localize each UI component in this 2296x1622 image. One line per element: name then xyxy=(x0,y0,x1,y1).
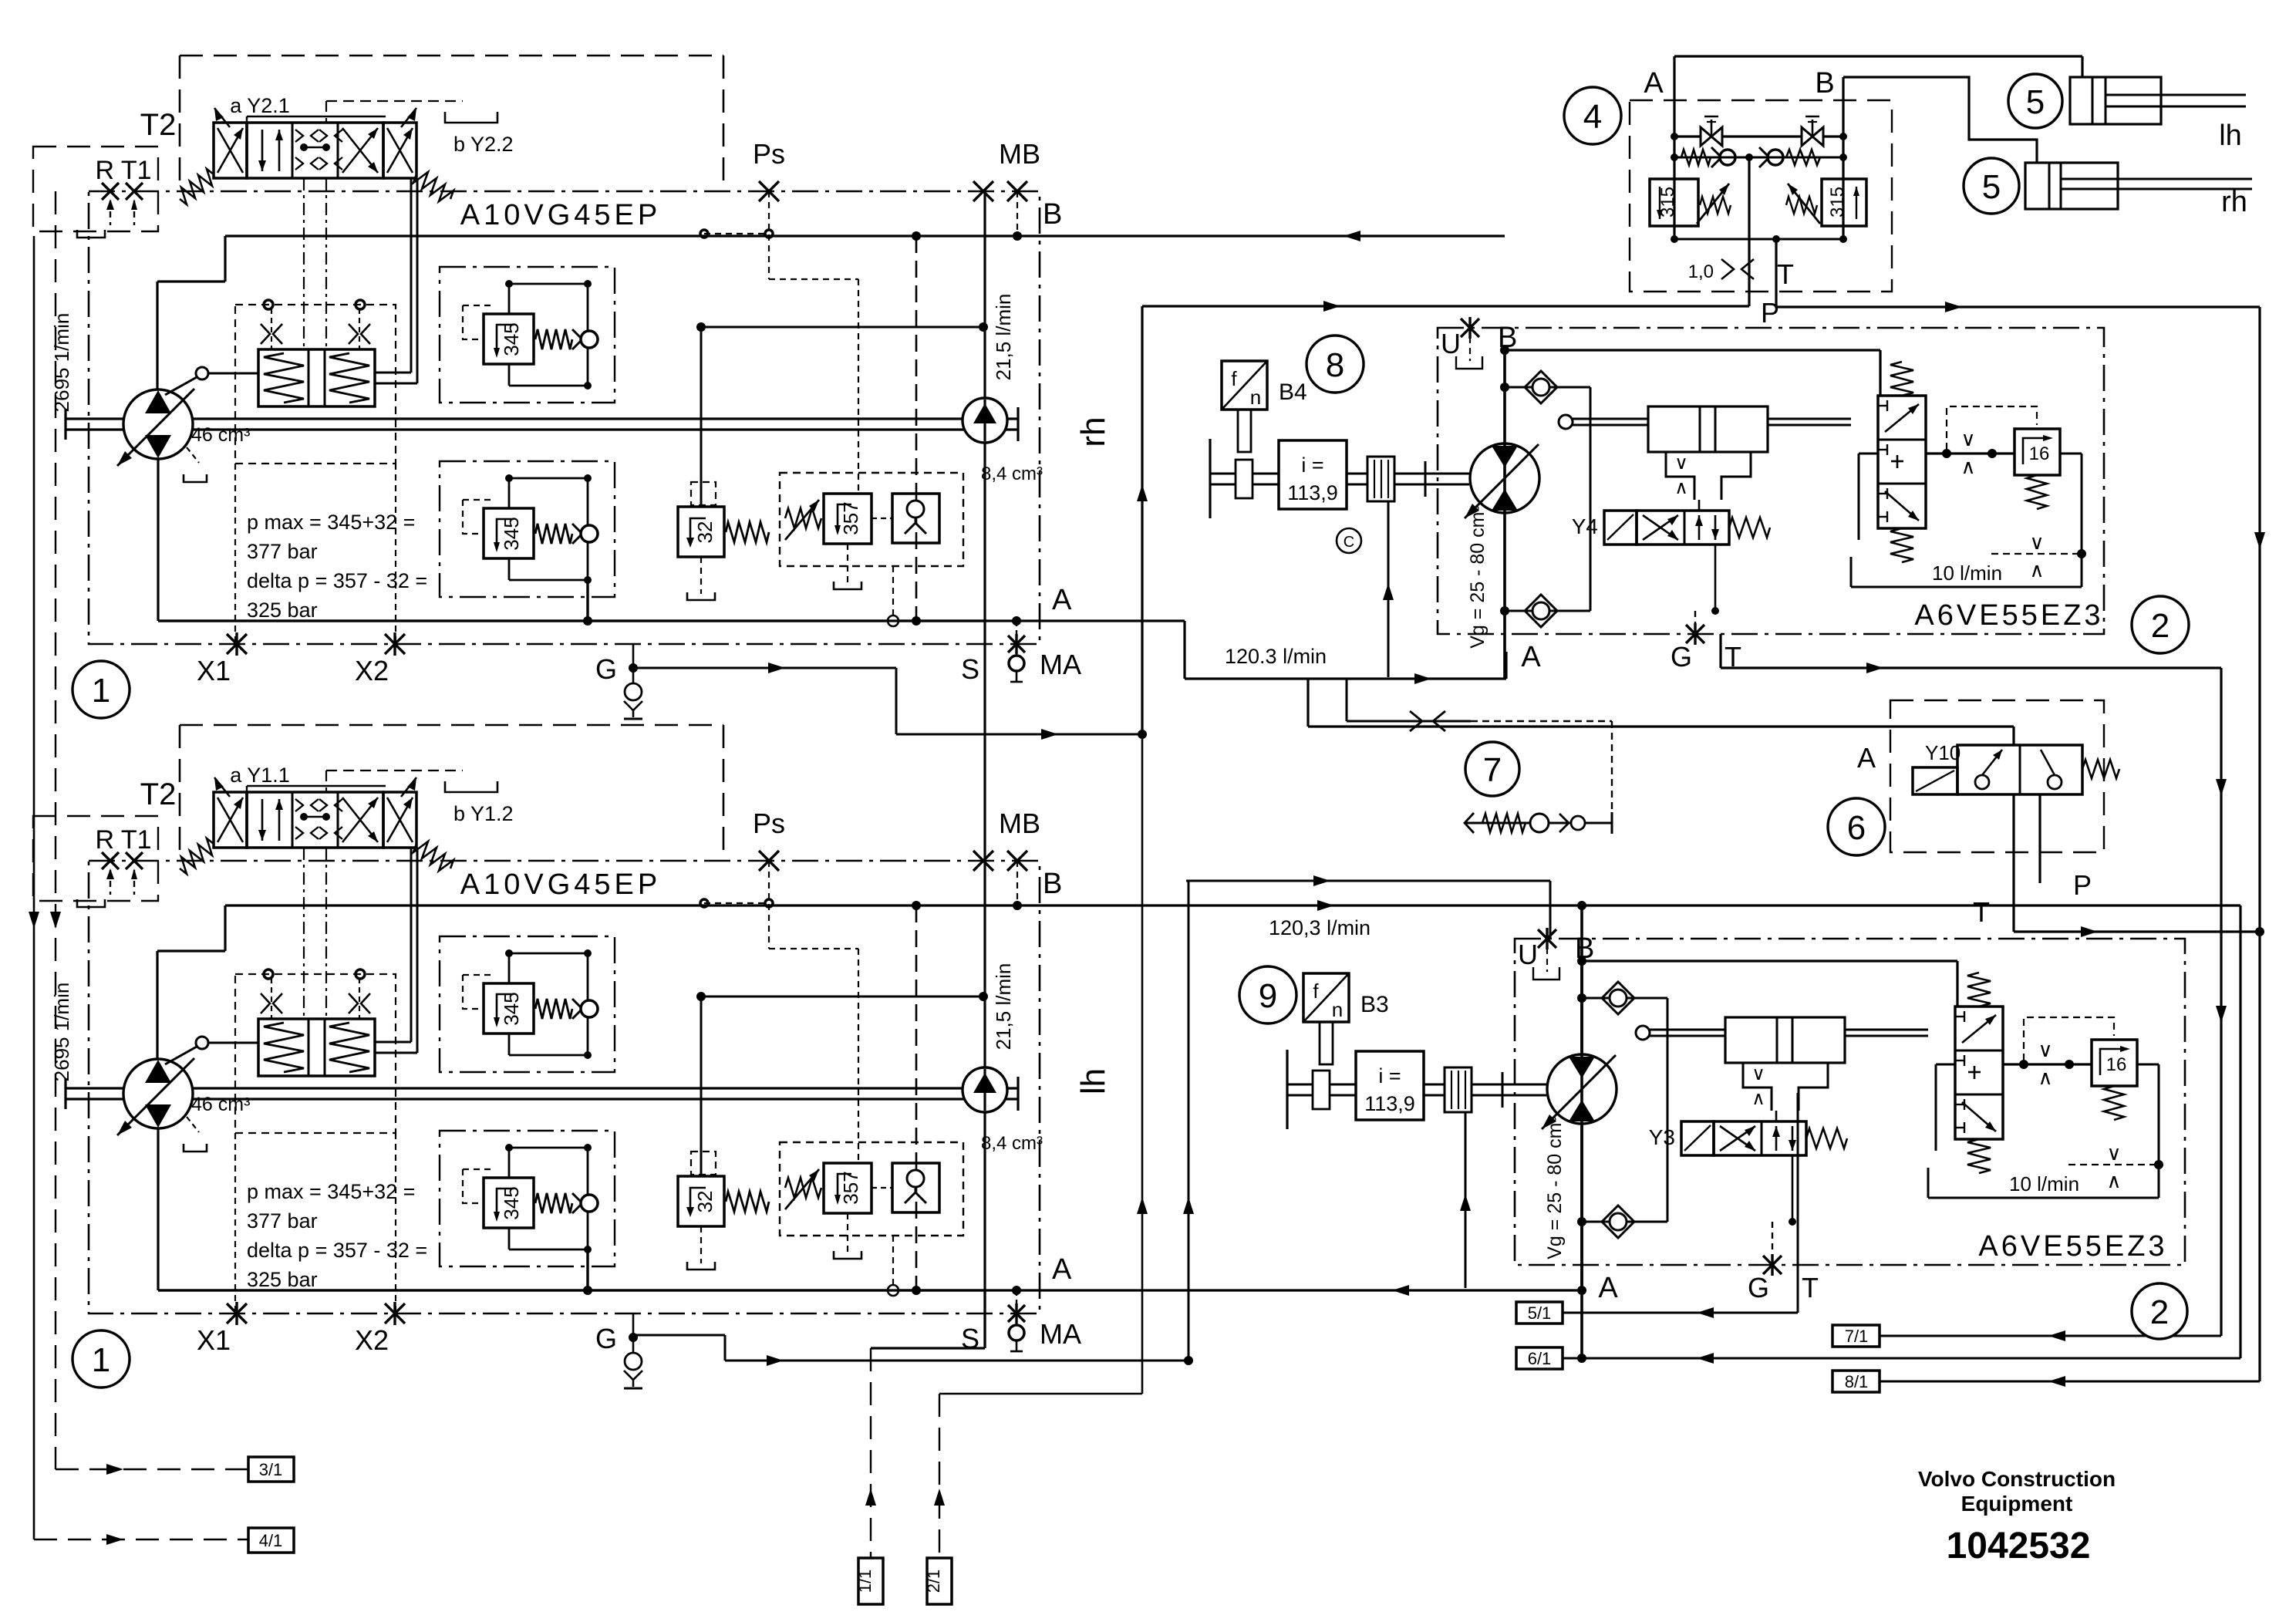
svg-text:T2: T2 xyxy=(140,108,177,142)
svg-text:1: 1 xyxy=(92,672,110,710)
svg-text:∨: ∨ xyxy=(2038,1038,2052,1061)
svg-text:i =: i = xyxy=(1378,1064,1401,1088)
svg-text:345: 345 xyxy=(500,992,523,1025)
svg-text:X1: X1 xyxy=(197,655,231,686)
svg-text:345: 345 xyxy=(500,322,523,356)
solenoid valve Y1.1/Y1.2 4/3 proportional xyxy=(214,792,247,848)
svg-text:A: A xyxy=(1598,1272,1618,1304)
high pressure relief valve 345 bar upper xyxy=(440,936,615,1072)
motor B line through circle xyxy=(1503,443,1506,513)
line G2 pump2 xyxy=(634,1334,725,1337)
shaft coupling xyxy=(1445,1067,1472,1112)
stroking cylinder xyxy=(1649,1029,1928,1031)
svg-text:325 bar: 325 bar xyxy=(247,599,318,622)
svg-text:lh: lh xyxy=(2219,120,2242,152)
svg-text:315: 315 xyxy=(1827,187,1848,218)
svg-text:∧: ∧ xyxy=(2029,558,2044,582)
spring below 16 xyxy=(2027,475,2047,509)
svg-text:∧: ∧ xyxy=(2106,1169,2121,1192)
svg-text:i =: i = xyxy=(1301,454,1323,477)
flushing check upper xyxy=(1505,386,1590,389)
svg-text:Ps: Ps xyxy=(753,808,785,839)
svg-text:10 l/min: 10 l/min xyxy=(2009,1172,2079,1195)
dashed box around control xyxy=(235,974,396,1133)
shaft coupling xyxy=(1367,457,1394,501)
high pressure relief valve 345 bar upper xyxy=(440,267,615,403)
gauge port MA xyxy=(1009,656,1024,671)
svg-text:Y3: Y3 xyxy=(1649,1125,1675,1149)
svg-text:5: 5 xyxy=(2026,83,2045,121)
357 block drain stub to A rail xyxy=(892,566,894,615)
svg-text:46 cm³: 46 cm³ xyxy=(191,424,250,446)
svg-text:∧: ∧ xyxy=(1674,477,1688,498)
svg-text:f: f xyxy=(1231,367,1237,390)
svg-text:1042532: 1042532 xyxy=(1947,1526,2091,1566)
valve output line with V marks xyxy=(1926,452,2014,454)
ref box 2/1 xyxy=(927,1558,952,1604)
pressure cutoff valve 357 bar xyxy=(780,473,963,566)
svg-text:325 bar: 325 bar xyxy=(247,1268,318,1291)
svg-text:lh: lh xyxy=(1074,1068,1112,1094)
svg-text:120.3 l/min: 120.3 l/min xyxy=(1225,645,1327,668)
svg-text:A6VE55EZ3: A6VE55EZ3 xyxy=(1978,1230,2167,1263)
line A2 from pump2 to lh motor xyxy=(158,1289,1582,1291)
enclosure dash-dot box pump xyxy=(89,191,1040,644)
svg-text:X1: X1 xyxy=(197,1324,231,1356)
rh motor A out to right edge xyxy=(1719,634,1721,668)
cylinder pedestal xyxy=(1666,452,1694,500)
svg-text:delta p = 357 - 32 =: delta p = 357 - 32 = xyxy=(247,1239,427,1262)
svg-text:∧: ∧ xyxy=(1961,455,1975,478)
pilot tap line above valve xyxy=(246,116,248,123)
cylinder rh xyxy=(1843,77,2037,163)
spring left of valve xyxy=(180,838,214,874)
svg-text:8: 8 xyxy=(1326,346,1344,384)
svg-text:U: U xyxy=(1441,328,1461,359)
motor B internal line xyxy=(1580,961,1583,1290)
svg-text:4: 4 xyxy=(1583,98,1602,136)
spring left of valve xyxy=(180,169,214,204)
svg-text:f: f xyxy=(1313,980,1319,1003)
svg-text:G: G xyxy=(1748,1272,1769,1303)
orifice on bypass line xyxy=(1347,720,1471,723)
pilot lines from valve to spool xyxy=(234,464,236,644)
svg-text:A: A xyxy=(1521,641,1541,673)
svg-text:G: G xyxy=(1671,641,1692,673)
inner pilot dashed line xyxy=(326,100,463,102)
pilot tap line above valve xyxy=(246,786,248,792)
dashed pilot line around 16 xyxy=(1947,406,2037,450)
svg-text:S: S xyxy=(961,1323,979,1354)
spring right of Y10 valve xyxy=(2082,760,2119,778)
makeup check with spring xyxy=(1465,822,1612,824)
svg-text:∧: ∧ xyxy=(2038,1066,2052,1089)
drive shaft xyxy=(64,409,66,440)
output of 16 to 10 l/min line xyxy=(2060,453,2082,455)
pump frame bottom line / port A rail xyxy=(158,1289,985,1291)
pump casing outline step xyxy=(156,951,158,1059)
dashed pilot line around 16 xyxy=(2024,1017,2114,1061)
svg-text:2695 1/min: 2695 1/min xyxy=(50,313,73,413)
circle 5 lh xyxy=(2008,74,2062,128)
charge line through circle xyxy=(983,1069,986,1111)
orifice left above spool xyxy=(261,324,270,344)
feed line into block6 xyxy=(1308,725,2014,727)
svg-text:16: 16 xyxy=(2029,443,2050,464)
pressure cutoff valve 357 bar xyxy=(780,1142,963,1236)
dashed box around control xyxy=(235,305,396,464)
svg-text:P: P xyxy=(1761,297,1779,329)
charge pressure rail xyxy=(700,327,703,507)
brake shuttle block dashed box xyxy=(1630,100,1892,292)
shutoff valve right xyxy=(1802,127,1812,146)
port X on drain line xyxy=(1008,636,1025,653)
svg-text:G: G xyxy=(595,1323,617,1354)
T return line from block4 xyxy=(1776,305,2260,308)
svg-text:7: 7 xyxy=(1483,751,1502,789)
svg-text:P: P xyxy=(2073,869,2092,901)
svg-text:113,9: 113,9 xyxy=(1364,1092,1415,1115)
svg-text:A: A xyxy=(1644,67,1664,99)
svg-text:p max = 345+32 =: p max = 345+32 = xyxy=(247,511,415,534)
port T1 xyxy=(126,852,143,869)
svg-text:b Y1.2: b Y1.2 xyxy=(453,802,514,825)
solenoid valve Y2.1/Y2.2 4/3 proportional xyxy=(214,123,247,178)
gear lubrication line from coupling xyxy=(1387,501,1390,677)
pressure valve 16 xyxy=(2014,429,2060,475)
item circle 2 rh xyxy=(2132,596,2189,653)
gear lubrication line from coupling xyxy=(1465,1112,1467,1288)
relief 315 right xyxy=(1822,179,1866,226)
svg-text:T: T xyxy=(1777,258,1794,290)
svg-text:46 cm³: 46 cm³ xyxy=(191,1094,250,1115)
svg-text:∨: ∨ xyxy=(1674,453,1688,474)
spring right of valve xyxy=(413,172,453,201)
charge pump 8,4 cm3 xyxy=(963,1067,1007,1112)
svg-text:n: n xyxy=(1250,386,1261,409)
high pressure relief valve 345 bar lower xyxy=(440,1131,615,1266)
svg-text:∧: ∧ xyxy=(1752,1088,1765,1109)
ref box 1/1 xyxy=(858,1558,883,1604)
flushing check upper xyxy=(1582,997,1667,1000)
svg-text:8,4 cm³: 8,4 cm³ xyxy=(981,464,1043,484)
drain bracket right of valve xyxy=(445,781,497,792)
breather at G xyxy=(632,1313,635,1352)
svg-text:345: 345 xyxy=(500,1186,523,1219)
pressure valve 16 xyxy=(2092,1040,2137,1086)
svg-text:21,5 l/min: 21,5 l/min xyxy=(992,294,1015,381)
motor B line through circle xyxy=(1580,1054,1583,1124)
inner pilot dashed line xyxy=(326,770,463,771)
svg-text:3/1: 3/1 xyxy=(259,1460,283,1479)
svg-text:A: A xyxy=(1857,742,1876,774)
sensor f/n B4 xyxy=(1222,361,1267,410)
svg-text:B: B xyxy=(1043,198,1062,231)
svg-text:A: A xyxy=(1052,1253,1072,1286)
orifice left above spool xyxy=(261,993,270,1013)
suction line S2 xyxy=(871,1347,985,1349)
svg-text:345: 345 xyxy=(500,517,523,550)
svg-text:Y10: Y10 xyxy=(1925,741,1961,764)
port R T1 dashed box xyxy=(33,816,158,901)
drive shaft xyxy=(64,1078,66,1109)
svg-text:MB: MB xyxy=(999,138,1040,170)
svg-text:R T1: R T1 xyxy=(95,825,151,855)
svg-text:A10VG45EP: A10VG45EP xyxy=(460,868,661,901)
port X2 xyxy=(385,1303,405,1324)
svg-text:2: 2 xyxy=(2150,1293,2169,1331)
orifice right above spool xyxy=(349,324,358,344)
swash plate link xyxy=(196,367,208,379)
stroking cylinder xyxy=(1572,418,1851,420)
svg-text:120,3 l/min: 120,3 l/min xyxy=(1269,916,1371,939)
charge vertical pump2 extension xyxy=(983,1290,986,1348)
svg-text:377 bar: 377 bar xyxy=(247,1209,318,1233)
ref box 7/1 xyxy=(1832,1325,1880,1347)
counterbalance 3-position valve xyxy=(1955,1007,2003,1139)
pilot valve dashed enclosure xyxy=(180,55,723,57)
pilot lines from valve to spool xyxy=(234,1133,236,1313)
svg-text:B4: B4 xyxy=(1279,379,1307,405)
breather at G xyxy=(632,644,635,683)
left margin dashed drain to 3/1 xyxy=(55,191,56,1469)
high pressure relief valve 345 bar lower xyxy=(440,461,615,597)
357 block drain stub to A rail xyxy=(892,1236,894,1284)
valve spring right xyxy=(1729,518,1770,538)
right edge drop to 7/1 xyxy=(2220,668,2222,1336)
svg-text:1/1: 1/1 xyxy=(855,1570,875,1593)
line A1 from pump1 to rh motor xyxy=(158,619,1185,622)
drain rail to B1 xyxy=(915,236,918,621)
pilot valve dashed enclosure xyxy=(180,724,723,727)
svg-text:6: 6 xyxy=(1847,809,1866,847)
cylinder lh xyxy=(1674,55,2082,57)
svg-text:1: 1 xyxy=(92,1341,110,1379)
svg-text:a Y1.1: a Y1.1 xyxy=(230,764,290,787)
gearbox shaft xyxy=(1209,439,1211,518)
orifice right above spool xyxy=(349,993,358,1013)
spring below 16 xyxy=(2104,1086,2124,1120)
svg-text:16: 16 xyxy=(2106,1054,2127,1075)
lh motor B through line xyxy=(1580,905,1583,1358)
rh motor A port stub xyxy=(1505,652,1507,679)
svg-text:Vg = 25 - 80 cm³: Vg = 25 - 80 cm³ xyxy=(1544,1116,1566,1259)
pilot riser to block4 P xyxy=(1141,306,1143,734)
item circle 4 xyxy=(1564,87,1621,144)
pump casing outline step xyxy=(156,282,158,389)
svg-text:21,5 l/min: 21,5 l/min xyxy=(992,963,1015,1050)
svg-text:T: T xyxy=(1725,641,1741,673)
svg-text:A10VG45EP: A10VG45EP xyxy=(460,199,661,231)
relief valve 32 bar charge xyxy=(678,1176,724,1226)
item circle 9 xyxy=(1239,966,1296,1023)
variable pump 46 cm3 xyxy=(123,389,193,459)
valve spring right xyxy=(1806,1128,1847,1148)
shutoff valve left xyxy=(1674,135,1843,137)
gearbox shaft xyxy=(1286,1050,1288,1129)
motor B internal line xyxy=(1503,350,1506,679)
svg-text:X2: X2 xyxy=(355,1324,389,1356)
anti-cavitation check right xyxy=(1749,157,1843,159)
port X1 xyxy=(227,634,247,654)
svg-text:A: A xyxy=(1052,584,1072,616)
svg-text:p max = 345+32 =: p max = 345+32 = xyxy=(247,1180,415,1203)
svg-text:T: T xyxy=(1802,1272,1819,1303)
check valve in cutoff block xyxy=(892,494,939,543)
T line to right edge xyxy=(2014,930,2260,932)
svg-text:1,0: 1,0 xyxy=(1688,261,1714,282)
svg-text:B: B xyxy=(1043,868,1062,900)
svg-text:Volvo Construction: Volvo Construction xyxy=(1918,1467,2116,1491)
counterbalance 3-position valve xyxy=(1878,396,1926,528)
gearbox i=113,9 xyxy=(1279,440,1347,509)
svg-text:32: 32 xyxy=(693,1191,716,1213)
ref box 3/1 xyxy=(56,1469,248,1470)
svg-text:MA: MA xyxy=(1040,649,1081,680)
cylinder pedestal xyxy=(1743,1063,1772,1111)
ref box 6/1 xyxy=(1516,1347,1563,1369)
svg-text:B3: B3 xyxy=(1360,992,1389,1017)
check valve in cutoff block xyxy=(892,1163,939,1212)
svg-text:Equipment: Equipment xyxy=(1961,1492,2073,1516)
item circle 2 lh xyxy=(2132,1283,2187,1339)
flushing check lower xyxy=(1505,610,1590,612)
item circle 1 xyxy=(72,1330,130,1388)
item circle 7 xyxy=(1465,742,1519,796)
enclosure dash-dot box pump xyxy=(89,861,1040,1313)
charge line through circle xyxy=(983,400,986,441)
svg-text:Vg = 25 - 80 cm³: Vg = 25 - 80 cm³ xyxy=(1467,505,1489,649)
left margin line to 4/1 xyxy=(33,236,35,1539)
relief 345 lower output to A rail xyxy=(586,578,588,621)
flushing check lower xyxy=(1582,1221,1667,1223)
ref box 4/1 xyxy=(34,1539,248,1540)
item circle 6 xyxy=(1828,798,1885,855)
svg-text:a Y2.1: a Y2.1 xyxy=(230,94,290,117)
32 relief pilot dashed box xyxy=(691,482,716,505)
right edge drop to 6/1 xyxy=(2239,905,2241,1358)
motor variable bent axis xyxy=(1547,1054,1617,1124)
swash plate link xyxy=(196,1037,208,1049)
svg-text:∨: ∨ xyxy=(2029,531,2044,554)
svg-text:A6VE55EZ3: A6VE55EZ3 xyxy=(1914,599,2103,632)
charge pressure rail xyxy=(700,996,703,1176)
svg-text:∨: ∨ xyxy=(1961,427,1975,450)
enclosure dash-dot box motor xyxy=(1515,939,2185,1265)
svg-text:5: 5 xyxy=(1982,168,2001,206)
svg-text:4/1: 4/1 xyxy=(259,1531,283,1550)
svg-text:∨: ∨ xyxy=(2106,1141,2121,1165)
svg-text:MB: MB xyxy=(999,808,1040,839)
port R xyxy=(102,183,119,200)
port R xyxy=(102,852,119,869)
svg-text:C: C xyxy=(1344,534,1354,551)
item circle 8 xyxy=(1306,336,1364,393)
svg-text:2: 2 xyxy=(2151,607,2170,645)
ref box 5/1 xyxy=(1516,1302,1563,1324)
svg-text:R T1: R T1 xyxy=(95,156,151,185)
svg-text:delta p = 357 - 32 =: delta p = 357 - 32 = xyxy=(247,569,427,592)
marker circle C xyxy=(1337,528,1361,553)
svg-text:MA: MA xyxy=(1040,1318,1081,1350)
port T1 xyxy=(126,183,143,200)
svg-text:B: B xyxy=(1815,67,1834,99)
line B1 from pump1 to rh motor xyxy=(225,234,1505,237)
svg-text:357: 357 xyxy=(839,1171,862,1204)
anti-cavitation check left xyxy=(1674,157,1749,159)
port X on drain line xyxy=(1008,1305,1025,1322)
svg-text:6/1: 6/1 xyxy=(1528,1349,1552,1368)
right edge T drop to 8/1 xyxy=(2258,307,2261,1381)
control spool with centering springs xyxy=(258,349,375,406)
relief 345 lower output to A rail xyxy=(586,1248,588,1290)
output of 16 to 10 l/min line xyxy=(2137,1064,2159,1066)
line G1 pump1 xyxy=(633,667,896,669)
relief 315 left xyxy=(1650,179,1698,226)
svg-text:5/1: 5/1 xyxy=(1528,1303,1552,1323)
svg-text:∨: ∨ xyxy=(1752,1064,1765,1084)
svg-text:2695 1/min: 2695 1/min xyxy=(50,983,73,1082)
enclosure dash-dot box motor xyxy=(1438,328,2104,634)
port R T1 dashed box xyxy=(33,147,158,231)
charge pump 8,4 cm3 xyxy=(963,398,1007,443)
relief valve 32 bar charge xyxy=(678,507,724,557)
ref box 8/1 xyxy=(1832,1371,1880,1392)
svg-text:8/1: 8/1 xyxy=(1845,1372,1869,1391)
motor variable bent axis xyxy=(1470,443,1539,513)
pump frame bottom line / port A rail xyxy=(158,619,985,622)
svg-text:U: U xyxy=(1518,939,1538,970)
bypass valve dashed box xyxy=(1890,700,2104,852)
svg-text:2/1: 2/1 xyxy=(924,1570,943,1593)
svg-text:32: 32 xyxy=(693,521,716,544)
spring right of valve xyxy=(413,841,453,871)
line B2 from pump2 to lh motor and right edge xyxy=(225,904,2240,906)
svg-text:113,9: 113,9 xyxy=(1287,481,1338,504)
svg-text:X2: X2 xyxy=(355,655,389,686)
svg-text:rh: rh xyxy=(1074,416,1112,447)
circle 5 rh xyxy=(1964,158,2019,214)
port X2 xyxy=(385,634,405,654)
svg-text:9: 9 xyxy=(1259,977,1277,1015)
svg-text:Y4: Y4 xyxy=(1572,514,1598,538)
control spool with centering springs xyxy=(258,1019,375,1076)
svg-text:G: G xyxy=(595,653,617,685)
svg-text:377 bar: 377 bar xyxy=(247,540,318,563)
variable pump 46 cm3 xyxy=(123,1059,193,1128)
sensor f/n B3 xyxy=(1303,973,1349,1022)
flushing riser x=1541 xyxy=(1188,881,1190,1361)
svg-text:Ps: Ps xyxy=(753,138,785,170)
svg-text:10 l/min: 10 l/min xyxy=(1932,561,2002,585)
svg-text:7/1: 7/1 xyxy=(1845,1327,1869,1346)
32 relief pilot dashed box xyxy=(691,1152,716,1175)
svg-text:8,4 cm³: 8,4 cm³ xyxy=(981,1133,1043,1154)
port X1 xyxy=(227,1303,247,1324)
drain rail to B2 xyxy=(915,905,918,1290)
valve output line with V marks xyxy=(2003,1063,2092,1065)
gearbox i=113,9 xyxy=(1356,1051,1424,1120)
valve 2/2 seat type xyxy=(1957,745,2082,794)
gauge port MA xyxy=(1009,1325,1024,1340)
charge and suction vertical line xyxy=(983,191,986,1348)
svg-text:n: n xyxy=(1332,998,1343,1021)
svg-text:T: T xyxy=(1973,896,1990,928)
item circle 1 xyxy=(72,661,130,718)
svg-text:rh: rh xyxy=(2221,186,2247,218)
svg-text:357: 357 xyxy=(839,501,862,534)
block4 lower collecting lines xyxy=(1674,226,1676,239)
